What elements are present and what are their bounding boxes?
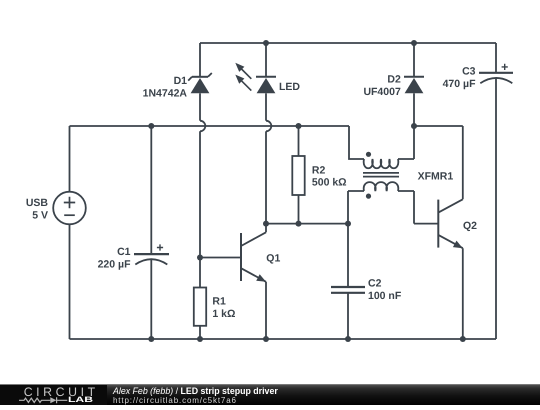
node junction collector net left bbox=[263, 221, 269, 227]
node junction collector net C2 bbox=[345, 221, 351, 227]
wire C3 branch lower bbox=[495, 78, 497, 339]
label Q2 bbox=[463, 220, 477, 232]
diode D2 UF4007 bbox=[404, 77, 424, 94]
label C1 220 uF bbox=[98, 246, 131, 270]
wire secondary right terminal bbox=[398, 191, 438, 224]
wire hop over bus at x=266 bbox=[266, 121, 271, 132]
node junction bottom R1 bbox=[197, 336, 203, 342]
wire Q1 base bbox=[200, 257, 241, 259]
transformer XFMR1 secondary winding bbox=[364, 182, 399, 191]
node junction bottom C2 bbox=[345, 336, 351, 342]
svg-text:LED: LED bbox=[279, 81, 300, 93]
wire hop over bus at x=200 bbox=[200, 121, 205, 132]
wire C2 to bottom rail bbox=[347, 293, 349, 339]
wire D1 branch upper bbox=[199, 43, 201, 77]
wire LED to hop bbox=[265, 93, 267, 120]
wire D1 branch to hop bbox=[199, 93, 201, 120]
svg-text:XFMR1: XFMR1 bbox=[418, 171, 454, 183]
wire D2 branch upper bbox=[413, 43, 415, 77]
node junction bus-R2 bbox=[296, 123, 302, 129]
svg-text:D2: D2 bbox=[387, 74, 401, 86]
label XFMR1 bbox=[418, 171, 454, 183]
svg-text:R2: R2 bbox=[312, 164, 326, 176]
svg-text:220 µF: 220 µF bbox=[98, 258, 131, 270]
wire R1 to bottom rail bbox=[199, 326, 201, 339]
label USB 5 V bbox=[26, 197, 49, 221]
wire bottom rail bbox=[70, 338, 497, 340]
svg-text:C3: C3 bbox=[462, 66, 476, 78]
wire Q2 emitter to bottom rail bbox=[462, 248, 464, 339]
svg-text:C1: C1 bbox=[117, 246, 131, 258]
footer bar bbox=[0, 384, 540, 405]
wire LED branch upper bbox=[265, 43, 267, 77]
node junction Q1 base tap bbox=[197, 255, 203, 261]
wire left rail upper segment bbox=[69, 126, 71, 192]
credit text bbox=[112, 385, 114, 387]
svg-text:Q1: Q1 bbox=[266, 253, 280, 265]
wire D2 node to Q2 collector bbox=[414, 126, 463, 199]
svg-text:1N4742A: 1N4742A bbox=[143, 87, 188, 99]
resistor R1 1k bbox=[194, 288, 206, 326]
node junction top rail LED bbox=[263, 40, 269, 46]
svg-text:470 µF: 470 µF bbox=[443, 78, 476, 90]
transistor Q2 bbox=[438, 199, 463, 248]
label LED bbox=[279, 81, 300, 93]
capacitor C1 bbox=[134, 244, 169, 264]
LED arrow 2 bbox=[235, 75, 251, 91]
wire primary right terminal bbox=[398, 126, 414, 159]
wire R2 branch lower bbox=[298, 195, 300, 224]
capacitor C2 bbox=[331, 287, 365, 293]
label C2 100 nF bbox=[368, 278, 402, 302]
wire C1 branch lower bbox=[150, 260, 152, 339]
wire top rail bbox=[200, 42, 496, 44]
svg-text:1 kΩ: 1 kΩ bbox=[212, 308, 235, 320]
wire LED anode to collector net bbox=[265, 131, 267, 223]
svg-text:LAB: LAB bbox=[68, 395, 94, 404]
diode LED bbox=[256, 77, 276, 94]
svg-text:C2: C2 bbox=[368, 278, 382, 290]
transformer core bbox=[363, 173, 399, 177]
label D1 1N4742A bbox=[143, 75, 188, 99]
wire R2 branch upper bbox=[298, 126, 300, 156]
wire bus drop to transformer primary bbox=[349, 126, 364, 159]
svg-text:Q2: Q2 bbox=[463, 220, 477, 232]
capacitor C3 bbox=[479, 64, 513, 83]
svg-text:5 V: 5 V bbox=[32, 209, 48, 221]
wire C1 branch upper bbox=[150, 126, 152, 254]
transistor Q1 bbox=[241, 224, 266, 282]
wire D2 anode bbox=[413, 93, 415, 126]
svg-text:100 nF: 100 nF bbox=[368, 290, 402, 302]
wire C3 branch upper bbox=[495, 43, 497, 73]
node junction D2 transformer bbox=[411, 123, 417, 129]
svg-text:USB: USB bbox=[26, 197, 49, 209]
wire D1 to R1 and Q1 base tap bbox=[199, 131, 201, 287]
svg-text:R1: R1 bbox=[212, 296, 226, 308]
wire left rail lower segment bbox=[69, 224, 71, 339]
svg-text:500 kΩ: 500 kΩ bbox=[312, 177, 347, 189]
wire secondary left terminal bbox=[348, 191, 364, 287]
LED arrow 1 bbox=[235, 63, 251, 79]
wire Q1 emitter to bottom rail bbox=[265, 282, 267, 339]
node junction bus-C1 bbox=[148, 123, 154, 129]
transformer primary polarity dot bbox=[366, 152, 371, 157]
label R2 500 kOhm bbox=[312, 164, 347, 188]
label D2 UF4007 bbox=[363, 74, 401, 98]
voltage source V1 USB 5V bbox=[53, 192, 86, 225]
node junction bottom Q2 emitter bbox=[460, 336, 466, 342]
wire collector net horizontal bbox=[266, 223, 348, 225]
label Q1 bbox=[266, 253, 280, 265]
node junction top rail D2 bbox=[411, 40, 417, 46]
node junction bottom C1 bbox=[148, 336, 154, 342]
node junction bottom Q1 emitter bbox=[263, 336, 269, 342]
svg-text:UF4007: UF4007 bbox=[363, 86, 401, 98]
transformer XFMR1 primary winding bbox=[364, 159, 399, 168]
transformer secondary polarity dot bbox=[366, 194, 371, 199]
label R1 1 kOhm bbox=[212, 296, 235, 320]
diode D1 zener 1N4742A bbox=[188, 73, 212, 93]
CircuitLab logo bbox=[0, 385, 107, 405]
svg-text:D1: D1 bbox=[174, 75, 188, 87]
resistor R2 500k bbox=[292, 156, 304, 195]
node junction collector net R2 bbox=[296, 221, 302, 227]
label C3 470 uF bbox=[443, 66, 476, 90]
wire middle bus bbox=[70, 125, 350, 127]
